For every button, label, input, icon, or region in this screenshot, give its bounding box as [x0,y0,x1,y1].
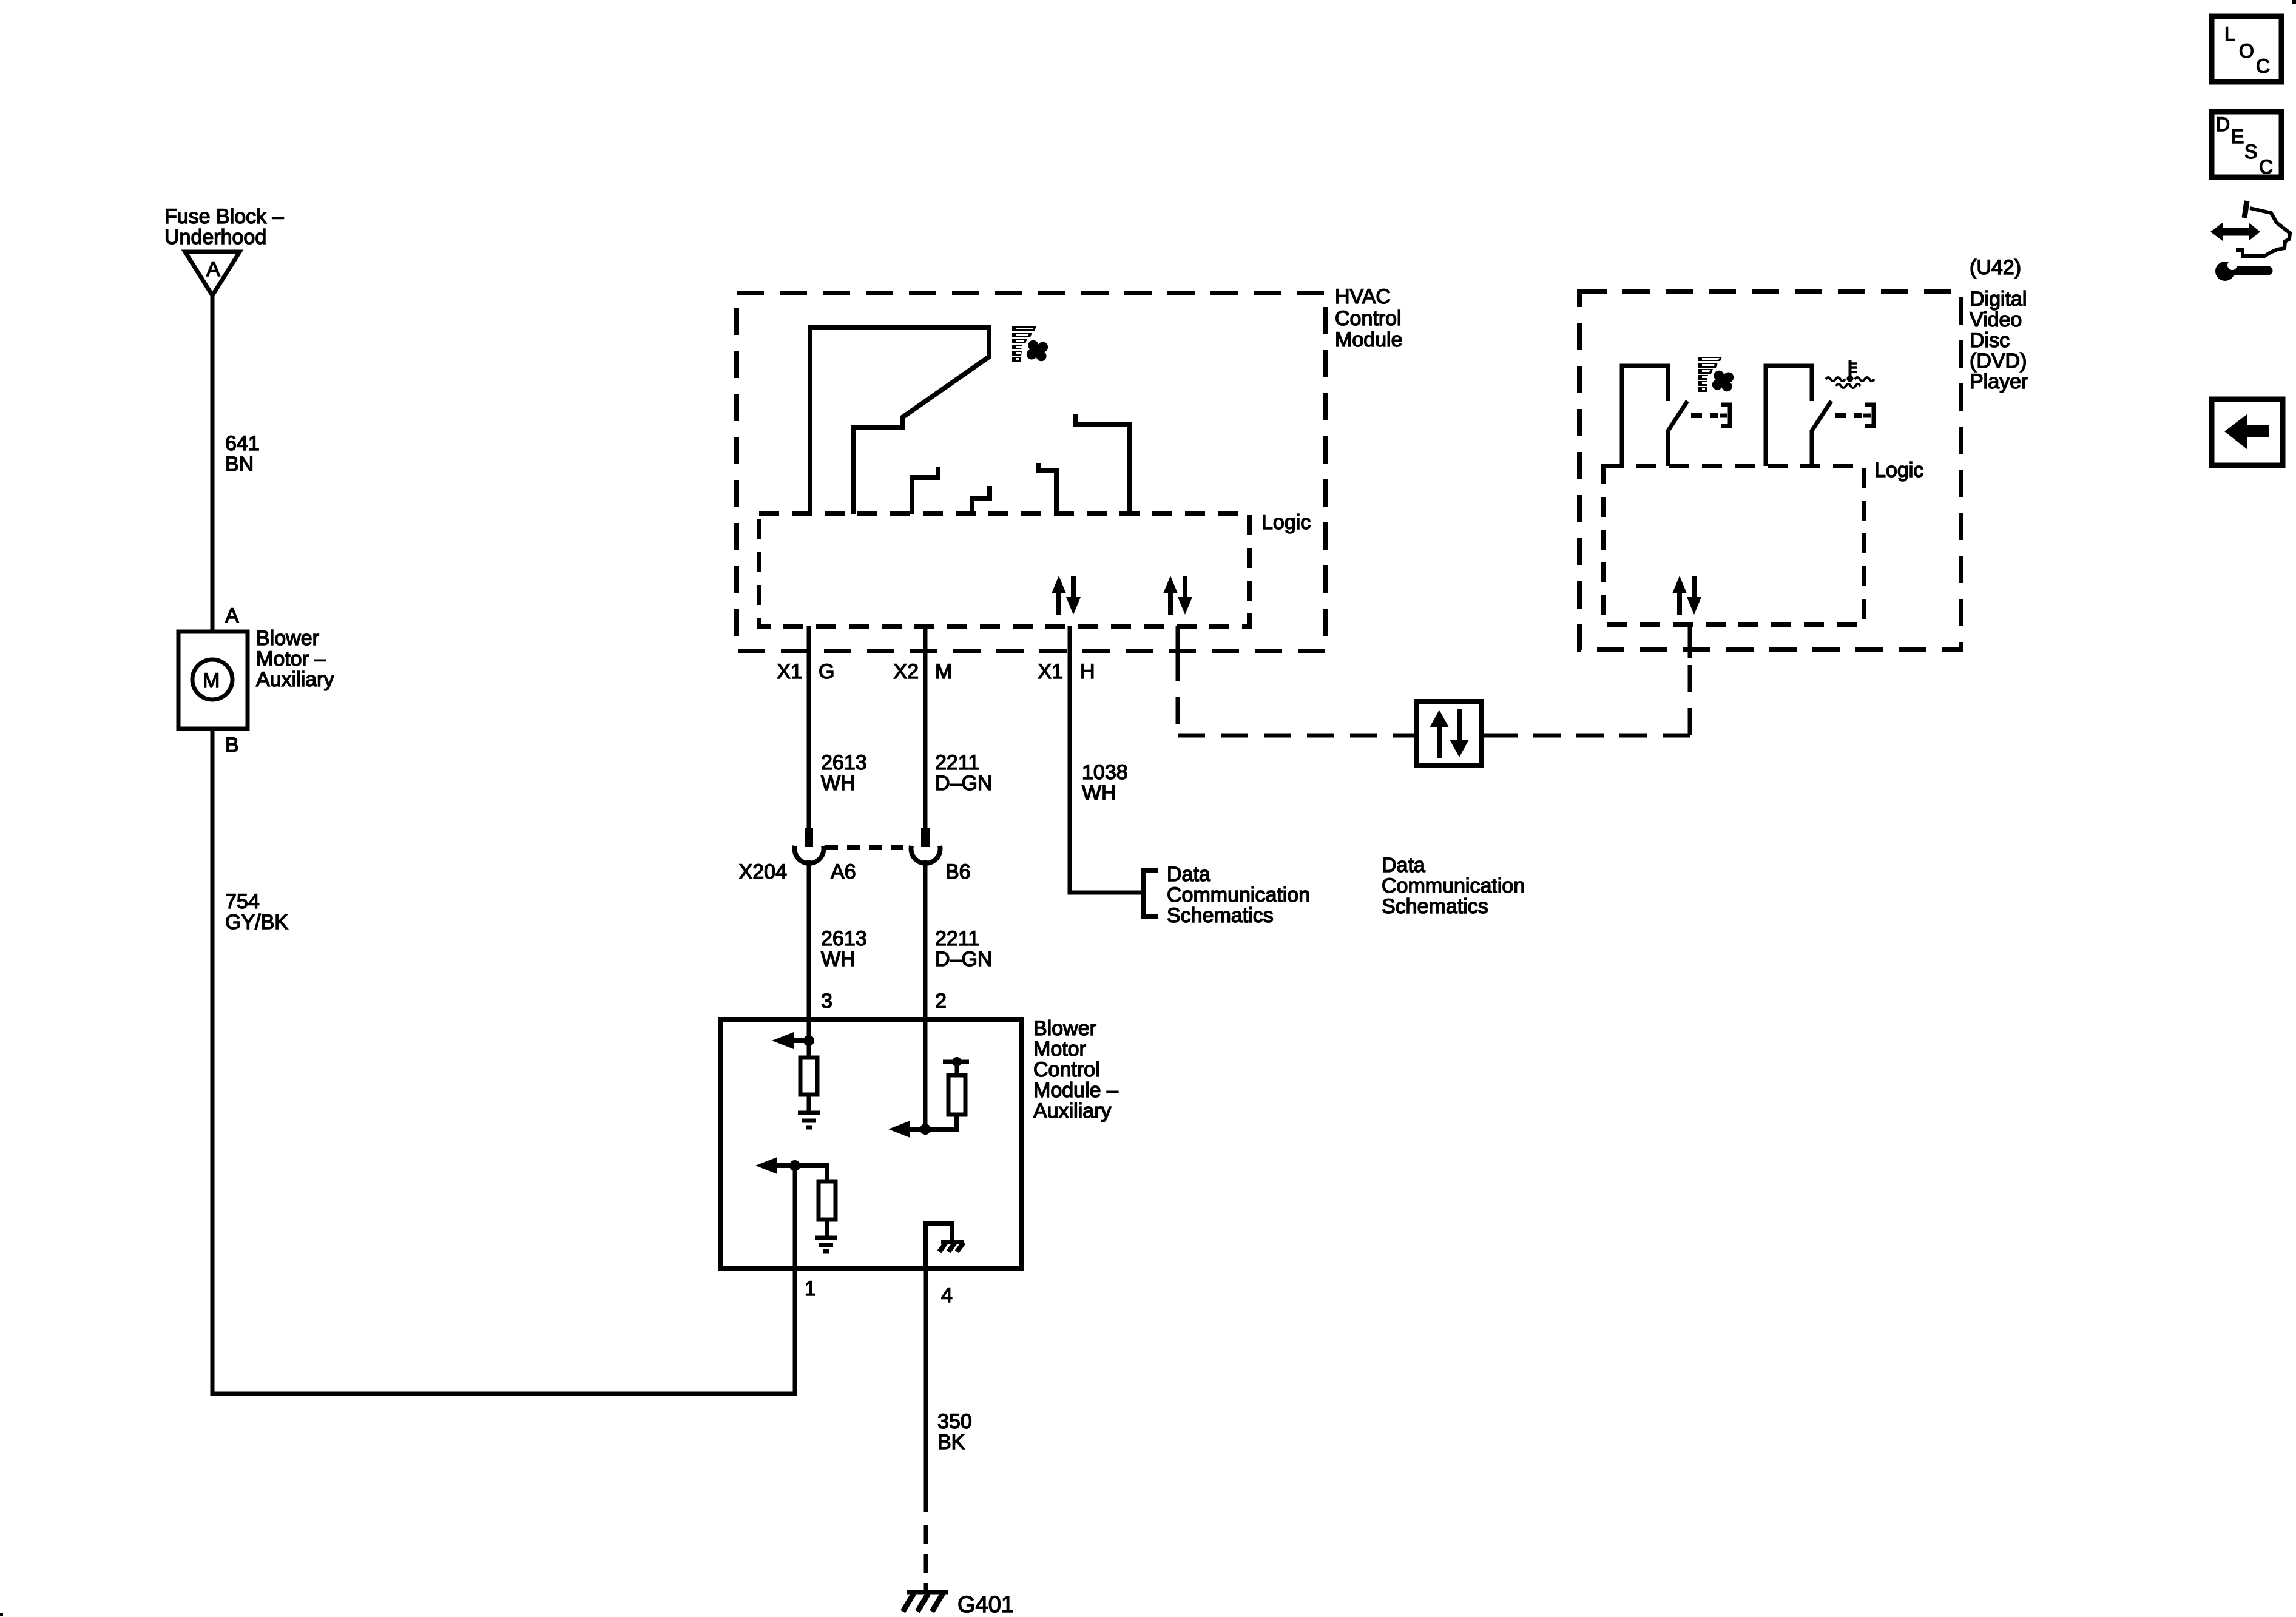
svg-text:Auxiliary: Auxiliary [256,668,334,691]
svg-text:1038: 1038 [1082,761,1128,784]
svg-text:Module: Module [1335,328,1403,351]
pin 1 wire inside module [793,1166,797,1268]
locator icon LOC [2212,16,2281,82]
label 2613 WH (lower) [821,927,867,971]
resistor R1 [800,1041,817,1112]
serial data link symbol box [1417,701,1482,766]
pin 2 internal: arrow + junction + resistor R2 [888,1057,969,1138]
svg-text:D–GN: D–GN [935,772,992,795]
svg-text:Motor –: Motor – [256,647,326,670]
svg-text:X204: X204 [739,860,787,883]
label 1038 WH [1082,761,1128,805]
serial data arrows pair (DVD logic) [1672,576,1701,615]
svg-text:M: M [203,669,220,692]
wire 2211 D-GN lower (B6 to module pin 2) [923,860,928,1130]
selector contact step 1 [912,467,938,514]
label 2211 D-GN (lower) [935,927,992,971]
HVAC serial data pin wire (solid inside box) [1176,626,1180,651]
svg-text:WH: WH [1082,781,1116,805]
blower motor control module - auxiliary box [720,1019,1022,1268]
svg-text:Communication: Communication [1382,874,1525,897]
svg-text:M: M [935,660,952,683]
connector X204 terminal B6 [911,828,940,863]
svg-text:L: L [2224,23,2235,45]
svg-text:2613: 2613 [821,751,867,774]
coolant temperature relay switch (DVD) [1766,366,1874,466]
svg-text:Blower: Blower [1033,1017,1096,1040]
svg-text:A6: A6 [831,860,856,883]
svg-text:Player: Player [1970,370,2028,393]
svg-text:O: O [2239,40,2254,62]
HVAC control module box (dashed) [737,293,1326,651]
svg-text:A: A [225,604,239,627]
svg-text:C: C [2256,55,2270,77]
svg-text:WH: WH [821,772,856,795]
svg-text:D: D [2216,113,2230,135]
selector contact step 4 [1076,414,1130,514]
wire HVAC X2-M to connector [923,626,928,829]
svg-text:Logic: Logic [1261,511,1311,534]
svg-text:G401: G401 [957,1592,1014,1617]
wire HVAC X1-H [1070,626,1143,893]
wire 641 BN (fuse block to blower motor) [211,295,215,632]
svg-text:Control: Control [1335,307,1402,330]
svg-text:Control: Control [1033,1058,1100,1081]
fuse block connector A (triangle) [185,252,240,295]
svg-text:641: 641 [225,432,260,455]
svg-text:Digital: Digital [1970,288,2027,311]
svg-text:754: 754 [225,890,260,913]
svg-text:Blower: Blower [256,627,319,650]
page corner mark (top right) [2292,0,2296,4]
svg-text:1: 1 [805,1277,816,1300]
label Data Communication Schematics (right) [1382,854,1525,918]
svg-text:Fuse Block –: Fuse Block – [164,205,284,228]
blower motor - auxiliary M1 [178,632,248,729]
svg-text:Disc: Disc [1970,329,2010,352]
svg-text:BK: BK [937,1431,965,1454]
serial data arrows pair 2 (HVAC logic) [1163,576,1192,615]
svg-text:HVAC: HVAC [1335,285,1391,308]
label Data Communication Schematics (left) [1167,863,1310,927]
wire 350 BK [924,1268,928,1512]
svg-text:3: 3 [821,990,832,1013]
svg-text:(DVD): (DVD) [1970,349,2027,373]
svg-text:S: S [2244,141,2257,163]
svg-text:GY/BK: GY/BK [225,911,288,934]
svg-text:E: E [2231,126,2244,147]
svg-text:X2: X2 [893,660,919,683]
description icon DESC [2212,112,2281,178]
DVD player box (dashed) [1579,291,1961,650]
svg-text:Underhood: Underhood [164,226,266,249]
label 641 BN [225,432,260,476]
svg-text:Communication: Communication [1167,883,1310,906]
svg-text:X1: X1 [1038,660,1063,683]
fan icon (DVD) [1698,357,1735,393]
svg-text:350: 350 [937,1410,972,1433]
back arrow icon [2212,399,2283,465]
dashed serial data wire symbol to DVD [1482,734,1493,738]
blower speed selector outline (HVAC) [810,328,989,514]
selector contact step 3 [1039,463,1056,514]
svg-text:D–GN: D–GN [935,948,992,971]
off-page connector bracket (1038 WH to data schematics) [1143,870,1158,916]
label 2211 D-GN (upper) [935,751,992,795]
svg-text:Logic: Logic [1874,459,1923,482]
label X1 | H [1038,660,1095,683]
svg-text:H: H [1080,660,1095,683]
wire 754 GY/BK (blower motor to module pin 1) [212,729,795,1394]
wire HVAC X1-G to connector [807,626,811,829]
label Blower Motor Control Module - Auxiliary [1033,1017,1118,1122]
selector contact step 2 [972,486,990,514]
svg-text:2211: 2211 [935,751,979,774]
svg-text:Video: Video [1970,308,2022,331]
serial data arrows pair 1 (HVAC logic) [1052,576,1081,615]
svg-text:B: B [225,734,239,757]
pin 4 internal chassis ground [926,1223,964,1268]
pin 1 internal: arrow + junction + resistor R3 + ground [755,1157,837,1251]
svg-text:Module –: Module – [1033,1079,1118,1102]
svg-text:4: 4 [941,1284,953,1307]
label 350 BK [937,1410,972,1454]
svg-text:X1: X1 [777,660,802,683]
dashed serial data wire HVAC to symbol [1176,653,1180,735]
fan relay switch (DVD) [1622,366,1730,466]
label HVAC Control Module [1335,285,1403,351]
ground G401 [903,1592,948,1612]
svg-text:Data: Data [1382,854,1425,877]
label 2613 WH (upper) [821,751,867,795]
coolant temperature icon [1826,360,1874,388]
service/repair icon (arrow, panel, wrench) [2210,201,2290,281]
fan icon (HVAC) [1012,326,1049,362]
svg-text:2: 2 [935,990,947,1013]
label: Fuse Block - Underhood [164,205,284,249]
DVD serial data pin wire (solid) [1688,624,1692,658]
connector X204 terminal A6 [795,828,824,863]
label 754 GY/BK [225,890,288,934]
page corner mark (bottom left) [0,1613,3,1616]
svg-text:WH: WH [821,948,856,971]
svg-text:A: A [206,258,220,281]
svg-text:Motor: Motor [1033,1038,1086,1061]
X204 mating dashed line [825,845,910,850]
DVD logic box (dashed) [1604,466,1864,624]
svg-text:BN: BN [225,453,254,476]
svg-text:C: C [2259,156,2273,178]
svg-text:2613: 2613 [821,927,867,950]
label Blower Motor - Auxiliary [256,627,334,691]
label Digital Video Disc (DVD) Player [1970,288,2028,393]
label X2 | M [893,660,952,683]
svg-text:Schematics: Schematics [1167,904,1274,927]
svg-text:G: G [819,660,834,683]
svg-text:Auxiliary: Auxiliary [1033,1099,1111,1122]
svg-text:Schematics: Schematics [1382,895,1488,918]
ground (R1) [798,1113,820,1127]
svg-text:Data: Data [1167,863,1210,886]
HVAC logic box (dashed) [759,514,1249,626]
svg-text:2211: 2211 [935,927,979,950]
wire 2613 WH lower (A6 to module pin 3) [807,860,811,1042]
svg-text:B6: B6 [945,860,971,883]
svg-text:(U42): (U42) [1970,256,2021,279]
pin 3 internal: arrow + junction [772,1032,814,1049]
label X1 | G [777,660,834,683]
